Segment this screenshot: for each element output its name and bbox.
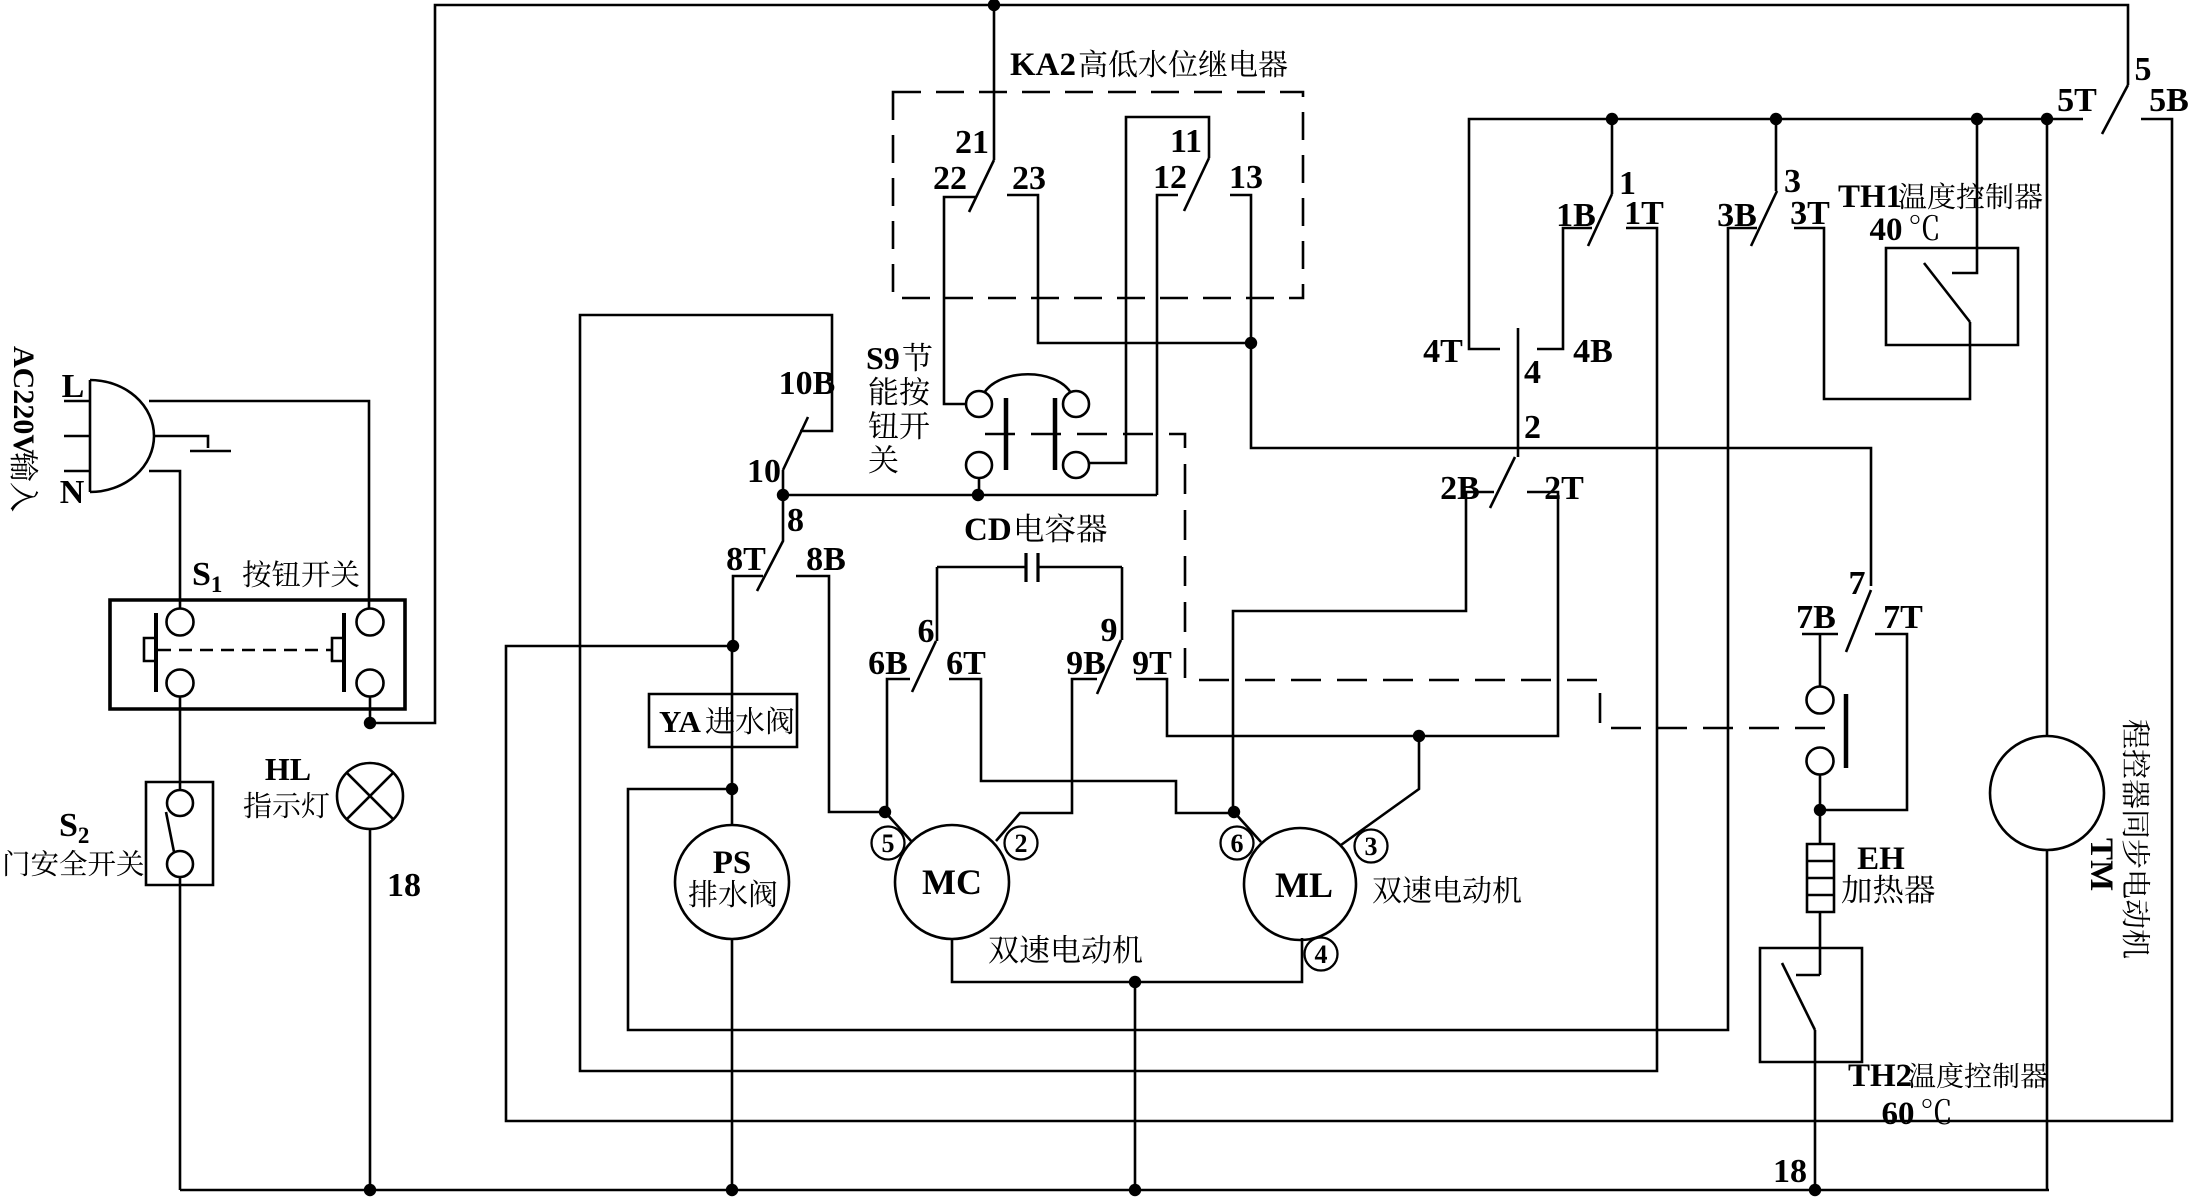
TH1 blade [1924, 263, 1970, 322]
switch blade 9 [1097, 640, 1121, 694]
wire MC4-ML4 [952, 938, 1302, 982]
svg-text:4: 4 [1315, 940, 1328, 969]
node dot PS bottom [726, 1184, 738, 1196]
svg-text:2: 2 [1015, 829, 1028, 858]
node dot YA-PS [726, 783, 738, 795]
label 门安全开关 [5, 850, 143, 876]
switch blade 3 [1751, 191, 1777, 246]
capacitor CD [937, 553, 1122, 641]
svg-text:9: 9 [1101, 612, 1118, 649]
wire S2 to bottom [179, 877, 182, 1190]
svg-text:23: 23 [1012, 160, 1046, 197]
wire 12 to node10 [1157, 195, 1178, 495]
wire TH2 tick [1796, 974, 1820, 977]
S9 mechanical link (dashed) [985, 434, 1838, 728]
wire MC5 diag [885, 812, 912, 842]
wire PS to bottom [731, 939, 734, 1190]
wire 9T-2T net [1136, 492, 1558, 736]
S2 contacts [166, 790, 193, 877]
svg-text:TM: TM [2083, 838, 2119, 891]
wire right bus [1469, 119, 2083, 349]
svg-text:6: 6 [1231, 829, 1244, 858]
svg-text:21: 21 [955, 124, 989, 161]
button S9 contacts [966, 374, 1089, 478]
wire PE stub [154, 436, 231, 451]
thermostat TH2 box [1760, 948, 1862, 1062]
svg-text:7: 7 [1849, 565, 1866, 602]
svg-text:AC220V: AC220V [7, 346, 40, 456]
label 40C [1870, 212, 1938, 248]
S1 left actuator [144, 613, 156, 692]
S1 right actuator [332, 613, 344, 692]
valve PS [675, 825, 789, 939]
relay KA2 box (dashed) [893, 92, 1303, 298]
node dot bus-TM [2041, 113, 2053, 125]
svg-text:HL: HL [265, 751, 311, 787]
switch 4-2 stem [1517, 328, 1520, 457]
node dot 7 out [1814, 804, 1826, 816]
svg-text:5B: 5B [2149, 82, 2188, 119]
node dot 10 [777, 489, 789, 501]
svg-text:60: 60 [1882, 1096, 1915, 1132]
svg-text:3: 3 [1365, 832, 1378, 861]
svg-text:6T: 6T [946, 645, 986, 682]
svg-text:40: 40 [1870, 212, 1903, 248]
wire 5B net [506, 119, 2172, 1121]
svg-text:18: 18 [1773, 1153, 1807, 1190]
switch blade 2 [1490, 457, 1515, 508]
wire 3B net [628, 228, 1757, 1030]
svg-text:8T: 8T [726, 541, 766, 578]
terminal 5 [872, 827, 905, 860]
label 程控器同步电动机 [2122, 720, 2150, 958]
wire S1 to top bus [370, 5, 2128, 723]
label KA2高低水位继电器 [1010, 47, 1287, 83]
label 排水阀 [689, 880, 777, 908]
wire ML6 diag [1234, 812, 1261, 842]
svg-text:EH: EH [1857, 841, 1905, 877]
svg-text:13: 13 [1229, 159, 1263, 196]
wire EH to TH2 [1819, 912, 1822, 975]
wire 3T to TH1 [1794, 228, 1970, 399]
svg-text:YA: YA [659, 704, 702, 739]
S1 link (dashed) [158, 649, 331, 652]
wire 8T to YA node [733, 576, 763, 646]
svg-text:9B: 9B [1066, 645, 1106, 682]
svg-text:L: L [62, 368, 85, 405]
svg-text:5: 5 [882, 829, 895, 858]
node dot 23-13 [1245, 337, 1257, 349]
node dot bus-3 [1770, 113, 1782, 125]
wire N to S1 [149, 471, 180, 608]
svg-text:7T: 7T [1883, 599, 1923, 636]
switch blade 21 [969, 160, 994, 212]
svg-text:4: 4 [1524, 354, 1541, 391]
node dot mid bottom [1129, 976, 1141, 988]
node dot bus-TH1 [1971, 113, 1983, 125]
wire node10 line [783, 494, 1157, 497]
node dot 9T-ML3 [1413, 730, 1425, 742]
wire 1 stem [1611, 119, 1614, 194]
switch blade 10 [783, 417, 808, 495]
motor TM [1990, 736, 2104, 850]
svg-text:2: 2 [1524, 409, 1541, 446]
label TH2温度控制器 [1848, 1058, 2047, 1094]
wire S9 to node10 [978, 478, 981, 495]
terminal 6 [1221, 827, 1254, 860]
switch blade 7 [1846, 590, 1871, 652]
node dot YA top [727, 640, 739, 652]
wire TH1 in [1952, 119, 1977, 273]
svg-text:CD: CD [964, 512, 1012, 548]
label S9节能按钮开关 [866, 340, 932, 473]
plug connector X1 [64, 380, 154, 492]
terminal 3 [1355, 830, 1388, 863]
svg-text:PS: PS [713, 845, 752, 881]
svg-text:ML: ML [1275, 865, 1333, 905]
resistor EH [1807, 844, 1834, 912]
node dot HL bottom [364, 1184, 376, 1196]
wire 22 to S9 [944, 197, 976, 404]
wire EH top [1819, 810, 1822, 844]
label CD电容器 [964, 512, 1107, 548]
svg-text:5T: 5T [2057, 82, 2097, 119]
wire 23 to 13 [1007, 195, 1251, 343]
switch S2 box [146, 782, 213, 885]
S9 actuator bars [1006, 398, 1055, 470]
wire S1 right to node [369, 697, 372, 723]
svg-text:2T: 2T [1544, 470, 1584, 507]
valve YA box label [649, 694, 797, 747]
wire 3 stem [1775, 119, 1778, 191]
svg-text:3B: 3B [1717, 197, 1757, 234]
wire 11 from S9 [1089, 117, 1209, 463]
node dot S1 out [364, 717, 376, 729]
svg-text:6: 6 [918, 613, 935, 650]
node dot S9 stem [972, 489, 984, 501]
label 双速电动机 MC [989, 935, 1142, 964]
node dot TH2 bottom [1809, 1184, 1821, 1196]
node dot MC5 [879, 806, 891, 818]
node dot bus-1 [1606, 113, 1618, 125]
svg-text:8B: 8B [806, 541, 846, 578]
switch blade 5 [2102, 85, 2128, 134]
wire 6T to ML6 [949, 679, 1234, 813]
motor MC [895, 825, 1009, 939]
svg-text:TH1: TH1 [1838, 179, 1902, 215]
svg-text:3T: 3T [1790, 195, 1830, 232]
svg-text:7B: 7B [1796, 599, 1836, 636]
svg-text:S9: S9 [866, 340, 900, 376]
lamp HL [337, 763, 403, 829]
label S1 按钮开关 [192, 556, 359, 597]
S1 contact circles [167, 609, 384, 697]
svg-text:TH2: TH2 [1848, 1058, 1912, 1094]
label 加热器 [1842, 875, 1935, 904]
svg-text:22: 22 [933, 160, 967, 197]
terminal 2 [1005, 827, 1038, 860]
wire mid drop [1134, 982, 1137, 1190]
svg-text:2B: 2B [1440, 470, 1480, 507]
label 指示灯 [244, 792, 329, 819]
switch S1 box [110, 600, 405, 709]
wire YA vertical [731, 646, 734, 825]
label 双速电动机 ML [1373, 876, 1521, 904]
label 60C [1882, 1096, 1950, 1132]
switch blade 1 [1588, 194, 1612, 246]
wire 7T [1820, 634, 1907, 810]
svg-text:1T: 1T [1624, 195, 1664, 232]
motor ML [1244, 828, 1356, 940]
switch blade 8 [757, 495, 783, 591]
wire TM bottom [2046, 850, 2049, 1189]
TH2 blade [1782, 963, 1815, 1030]
svg-text:10: 10 [747, 453, 781, 490]
AC220V input label (rotated) [7, 346, 40, 511]
wire 9B to MC2 [996, 679, 1097, 841]
wire TH2 out [1814, 1030, 1817, 1190]
node dot ML4 bottom [1129, 1184, 1141, 1196]
wire 13 to switch 7 [1230, 195, 1871, 586]
svg-text:MC: MC [922, 862, 982, 902]
svg-text:10B: 10B [779, 365, 836, 402]
node dot ML6 [1228, 806, 1240, 818]
svg-text:N: N [60, 474, 85, 511]
wire HL to bottom [369, 829, 372, 1190]
wire L to S1 [149, 401, 369, 608]
svg-text:4B: 4B [1573, 333, 1613, 370]
wire 8B to MC5 [796, 576, 885, 812]
svg-text:9T: 9T [1132, 645, 1172, 682]
svg-text:18: 18 [387, 867, 421, 904]
switch blade 11 [1184, 158, 1209, 211]
svg-text:6B: 6B [868, 645, 908, 682]
wire 21 from top [993, 5, 996, 160]
terminal 4 [1305, 938, 1338, 971]
wire 10B to 1T riser [580, 228, 1657, 1071]
wire ML3 branch [1341, 736, 1419, 845]
label TH1温度控制器 [1838, 179, 2042, 215]
svg-text:4T: 4T [1423, 333, 1463, 370]
wire bottom neutral 18 [180, 1189, 2049, 1192]
svg-text:8: 8 [787, 502, 804, 539]
wire S1 left to S2 [179, 697, 182, 790]
wire 6B to MC5 [887, 679, 910, 812]
wire 2B to ML6 [1233, 492, 1494, 812]
svg-text:12: 12 [1153, 159, 1187, 196]
button 7 contacts [1802, 634, 1846, 810]
thermostat TH1 box [1886, 248, 2018, 345]
svg-text:KA2: KA2 [1010, 47, 1076, 83]
wire TM top [2046, 119, 2049, 736]
node dot top bus 21 [988, 0, 1000, 11]
switch blade 6 [912, 641, 936, 692]
wire 1B to 4B [1537, 228, 1592, 349]
svg-text:11: 11 [1170, 123, 1202, 160]
